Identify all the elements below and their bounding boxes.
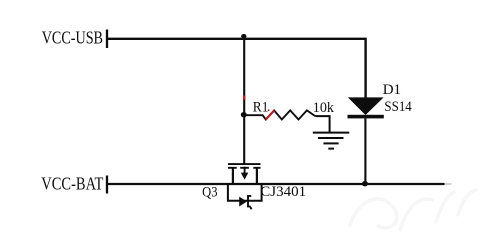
body diode (Schottky) xyxy=(239,197,247,207)
svg-text:10k: 10k xyxy=(313,100,335,116)
svg-text:Q3: Q3 xyxy=(202,184,217,200)
junction dot: D1 / bottom rail xyxy=(362,181,368,186)
svg-text:D1: D1 xyxy=(383,82,401,98)
svg-text:VCC-USB: VCC-USB xyxy=(42,28,103,48)
wire: resistor to ground xyxy=(315,116,329,132)
svg-text:SS14: SS14 xyxy=(384,99,412,115)
red speck after R1 xyxy=(268,109,270,111)
substrate arrow xyxy=(244,167,246,174)
svg-text:CJ3401: CJ3401 xyxy=(260,184,306,200)
drain pin xyxy=(256,168,258,184)
wire: VCC-BAT bottom rail xyxy=(107,183,445,185)
junction dot: R1 tap node xyxy=(241,112,247,117)
body diode loop wire xyxy=(228,184,262,201)
red mark on gate wire xyxy=(243,96,245,100)
transistor Q3 (P-MOSFET) xyxy=(228,164,262,209)
wire: D1 cathode to VCC-BAT rail xyxy=(364,118,366,184)
junction dot: top rail / gate branch xyxy=(241,34,246,38)
wire: gate branch vertical xyxy=(243,39,245,164)
channel segments xyxy=(228,167,261,169)
pin tick of net VCC-USB xyxy=(106,30,108,49)
source pin xyxy=(232,168,234,184)
faded end of bottom rail xyxy=(445,183,452,185)
resistor R1 zigzag xyxy=(246,110,316,119)
wire: top rail to D1 anode xyxy=(364,38,366,98)
gate bar xyxy=(228,163,261,165)
diode D1 (Schottky) xyxy=(348,97,384,118)
wire: VCC-USB top rail xyxy=(107,38,366,40)
ground xyxy=(313,133,350,149)
svg-text:VCC-BAT: VCC-BAT xyxy=(41,174,103,194)
pin tick of net VCC-BAT xyxy=(106,176,108,194)
svg-text:R1: R1 xyxy=(253,100,269,116)
